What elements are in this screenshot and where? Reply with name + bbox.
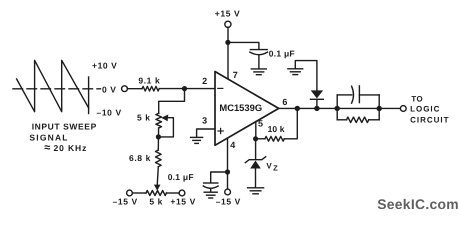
svg-text:0 V: 0 V (102, 84, 117, 94)
svg-text:9.1 k: 9.1 k (138, 76, 160, 86)
svg-text:+10 V: +10 V (92, 61, 117, 71)
svg-text:SeekIC.com: SeekIC.com (377, 196, 459, 212)
svg-text:6.8 k: 6.8 k (129, 153, 151, 163)
svg-text:INPUT SWEEP: INPUT SWEEP (32, 122, 97, 132)
svg-text:5 k: 5 k (149, 197, 163, 207)
svg-text:2: 2 (202, 76, 207, 86)
svg-text:CIRCUIT: CIRCUIT (410, 116, 449, 125)
svg-text:5 k: 5 k (137, 113, 151, 123)
svg-text:MC1539G: MC1539G (219, 102, 262, 113)
svg-text:V: V (266, 162, 272, 171)
svg-text:6: 6 (282, 97, 287, 107)
svg-text:≈ 20 KHz: ≈ 20 KHz (44, 142, 87, 154)
svg-text:–10 V: –10 V (97, 107, 122, 117)
svg-text:–15 V: –15 V (216, 197, 241, 207)
svg-text:7: 7 (233, 70, 238, 80)
svg-text:–15 V: –15 V (113, 197, 138, 207)
svg-text:3: 3 (202, 116, 207, 126)
svg-text:+15 V: +15 V (170, 197, 195, 207)
svg-text:10 k: 10 k (268, 124, 285, 134)
svg-text:SIGNAL: SIGNAL (29, 132, 68, 142)
svg-text:TO: TO (411, 95, 423, 104)
svg-text:5: 5 (258, 119, 263, 129)
svg-text:LOGIC: LOGIC (410, 105, 440, 114)
svg-text:0.1 μF: 0.1 μF (168, 172, 194, 182)
svg-text:Z: Z (273, 164, 278, 173)
svg-text:0.1 μF: 0.1 μF (269, 48, 295, 58)
svg-text:4: 4 (230, 140, 235, 150)
svg-text:+15 V: +15 V (215, 9, 240, 19)
